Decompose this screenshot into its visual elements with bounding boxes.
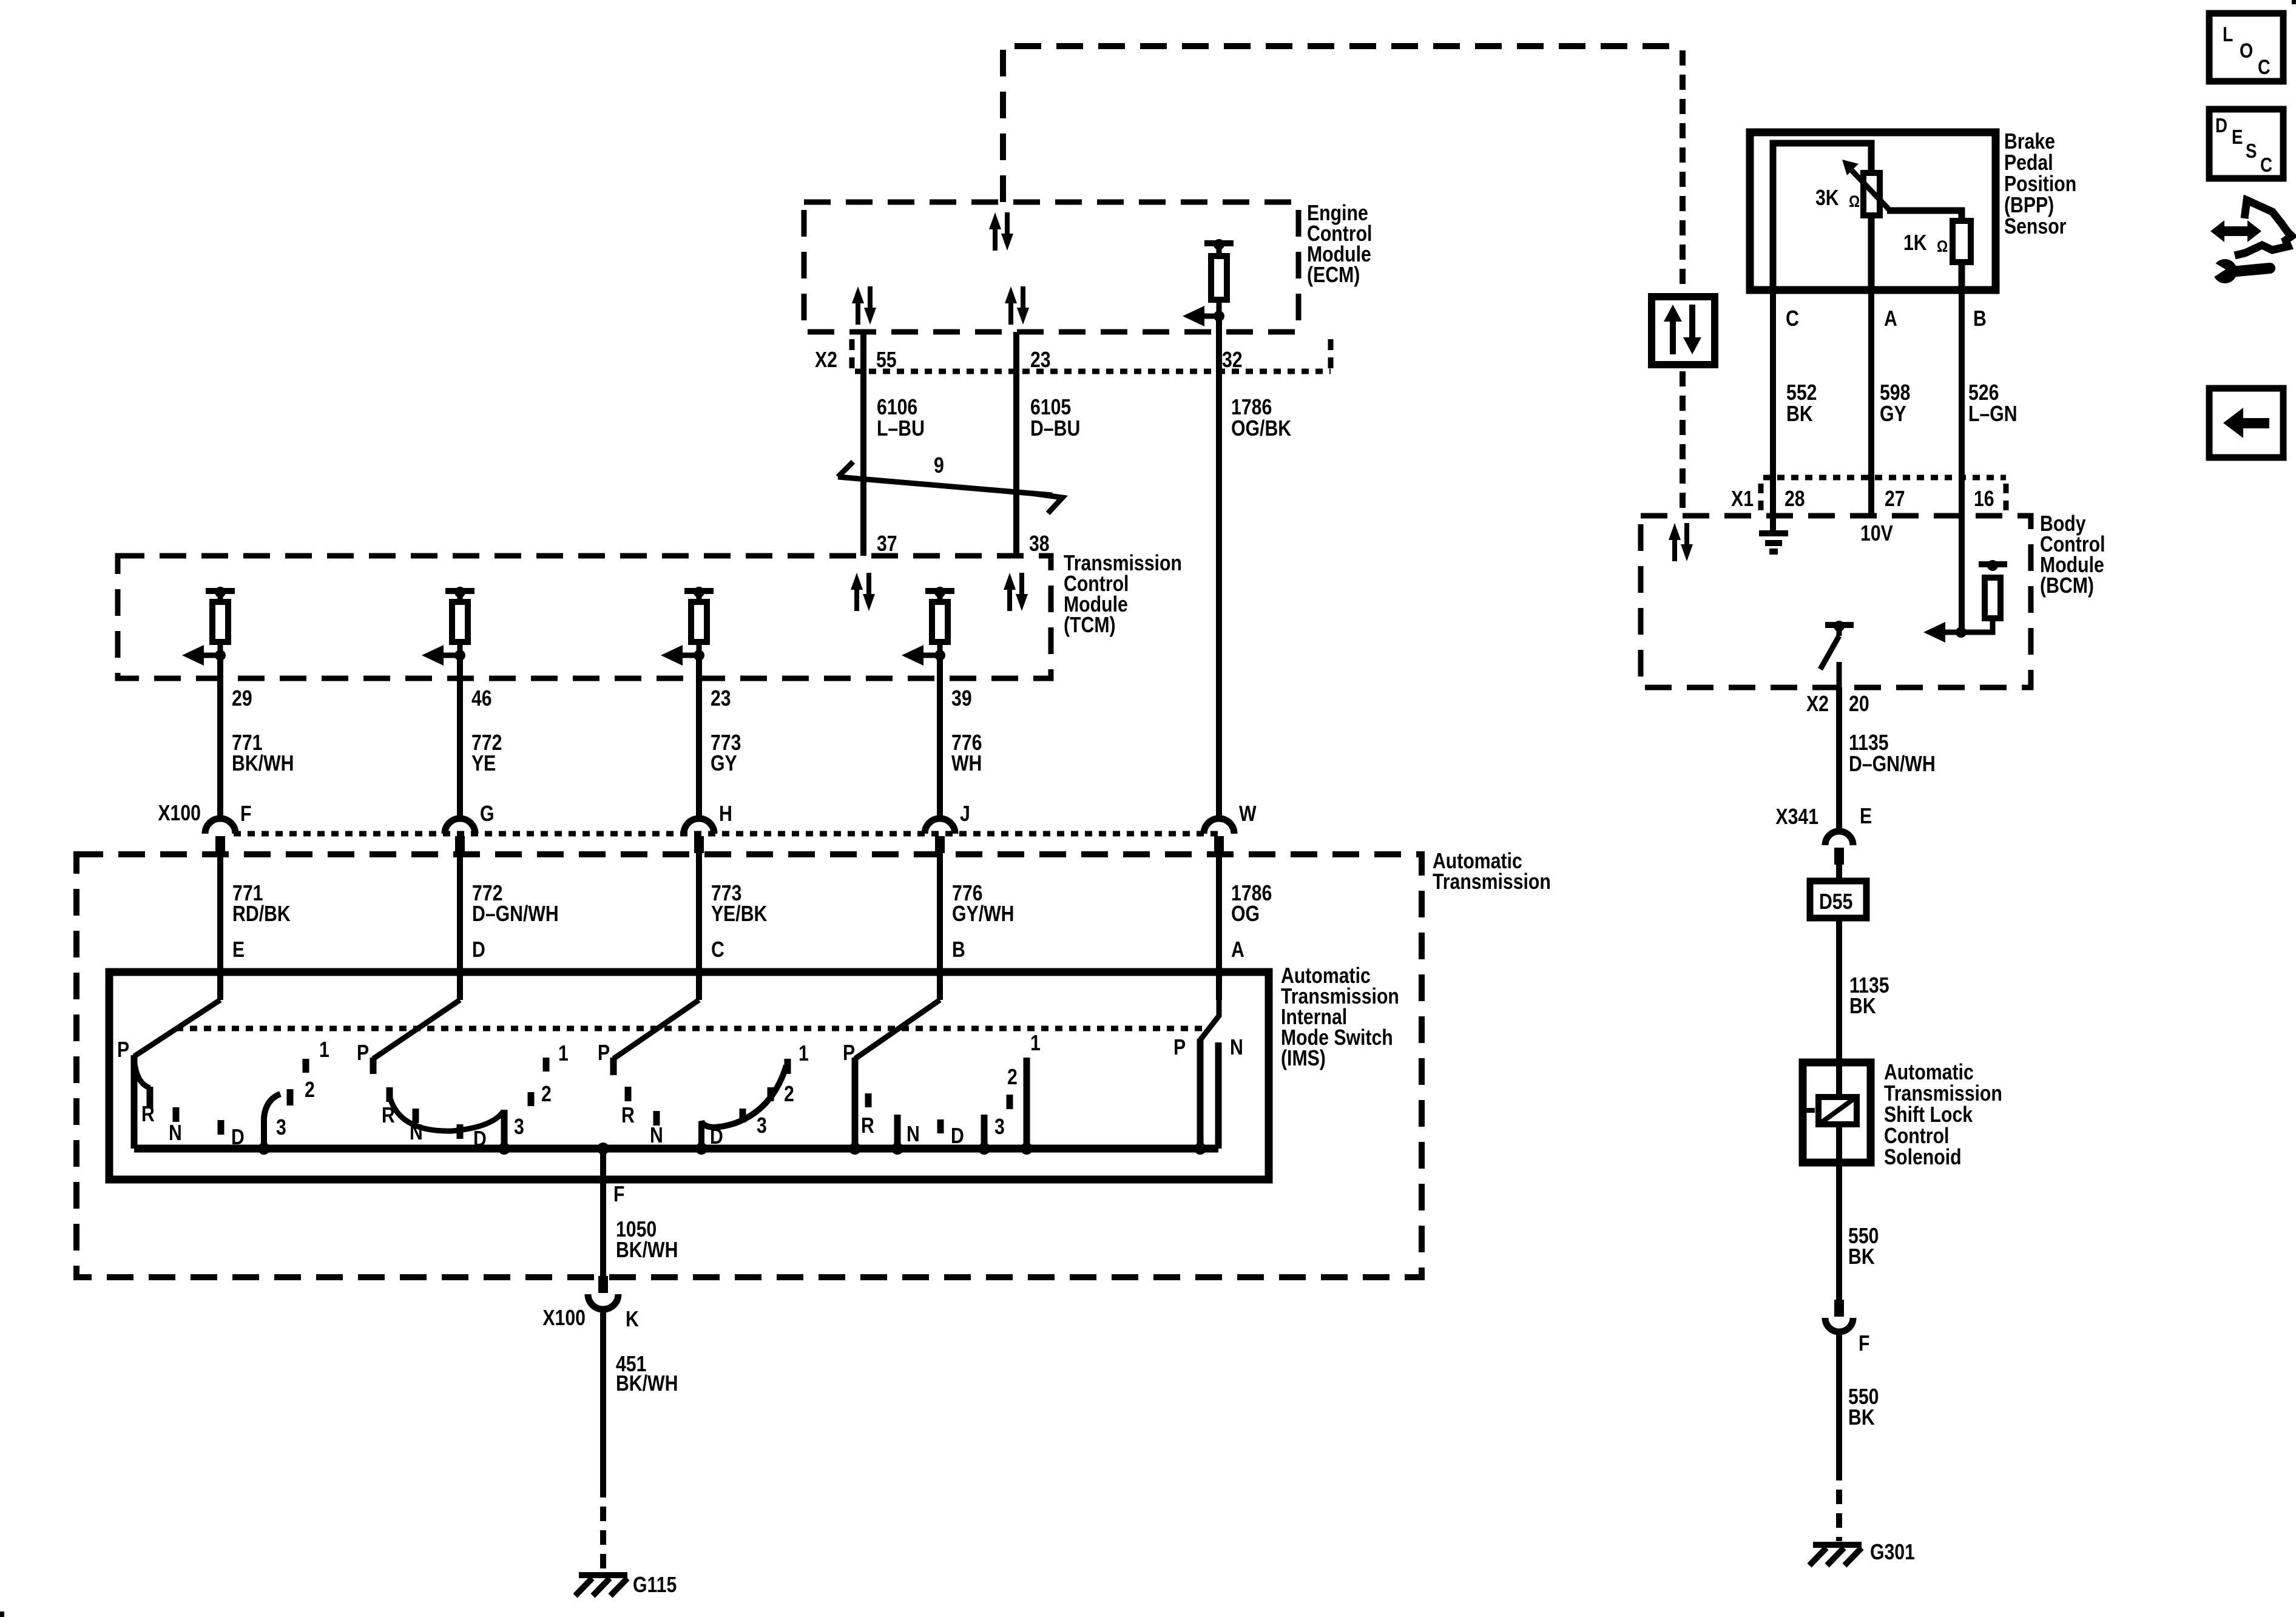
wire 526 L-GN (BPP B to BCM 16) <box>1959 290 1965 632</box>
svg-text:Transmission: Transmission <box>1433 870 1551 894</box>
wire 772 YE (TCM 46 to X100) <box>457 655 463 820</box>
splice D55 box <box>1810 881 1866 918</box>
svg-text:9: 9 <box>934 454 944 478</box>
TCM output driver pin 29 <box>182 587 235 666</box>
IMS switch E bus junction <box>258 1143 270 1155</box>
svg-text:39: 39 <box>951 687 972 711</box>
svg-text:1K: 1K <box>1903 231 1927 255</box>
wire B inside BPP <box>1959 262 1965 290</box>
svg-text:H: H <box>719 802 732 826</box>
IMS switch A wiper diagonal <box>1200 972 1219 1040</box>
IMS switch C contact R tick <box>625 1087 632 1101</box>
svg-text:X100: X100 <box>158 802 201 826</box>
svg-text:D: D <box>710 1125 723 1149</box>
IMS switch B contact R tick <box>865 1093 872 1107</box>
IMS bus junction at F <box>597 1143 609 1155</box>
svg-text:10V: 10V <box>1860 522 1893 546</box>
IMS switch D contact R tick <box>387 1087 393 1102</box>
wire 771 RD/BK (X100 into IMS pin E) <box>217 849 223 1000</box>
svg-text:GY: GY <box>1880 402 1906 427</box>
svg-text:Sensor: Sensor <box>2004 215 2067 239</box>
wire 771 BK/WH (TCM 29 to X100) <box>217 655 223 820</box>
svg-text:3: 3 <box>994 1115 1005 1139</box>
wire 552 BK (BPP C to BCM 28) <box>1770 290 1776 532</box>
svg-text:F: F <box>1859 1332 1869 1356</box>
connector X100 terminal J <box>925 819 955 853</box>
IMS switch B contact D tick <box>937 1119 944 1133</box>
TCM output driver pin 39 <box>902 587 954 666</box>
connector X100 terminal K <box>588 1276 618 1309</box>
svg-text:N: N <box>410 1121 423 1145</box>
IMS switch D contact D tick <box>457 1124 464 1139</box>
BCM pull-up resistor for pin 16 <box>1923 560 2007 643</box>
wire 6105 D-BU (ECM 23 to TCM 38) <box>1013 332 1019 556</box>
IMS switch D contact 1 tick <box>543 1058 550 1072</box>
svg-text:R: R <box>382 1104 395 1128</box>
legend back arrow box <box>2209 388 2283 457</box>
connector X100 terminal G <box>445 819 475 853</box>
svg-text:(ECM): (ECM) <box>1307 263 1360 288</box>
connector X2 dashed line <box>855 369 1331 374</box>
svg-text:N: N <box>169 1121 182 1146</box>
svg-text:RD/BK: RD/BK <box>232 902 291 927</box>
svg-text:BK/WH: BK/WH <box>616 1372 678 1396</box>
svg-text:3K: 3K <box>1815 186 1839 211</box>
svg-text:E: E <box>1860 805 1872 829</box>
svg-text:32: 32 <box>1222 348 1243 373</box>
IMS switch C bridge arc D to 1 <box>701 1065 786 1149</box>
IMS switch D contact 3 drop to bus <box>501 1110 508 1149</box>
svg-text:G115: G115 <box>633 1573 677 1598</box>
svg-text:1: 1 <box>319 1038 329 1062</box>
svg-text:D: D <box>231 1126 245 1150</box>
svg-text:2: 2 <box>784 1082 794 1107</box>
IMS switch A pivot P to bus <box>1197 1039 1204 1149</box>
wire 772 D–GN/WH (X100 into IMS pin D) <box>457 849 463 1000</box>
svg-text:F: F <box>613 1183 624 1207</box>
svg-text:Solenoid: Solenoid <box>1884 1146 1962 1170</box>
svg-text:Ω: Ω <box>1849 192 1860 211</box>
svg-text:1: 1 <box>799 1042 809 1066</box>
wire 1786 OG (X100 into IMS pin A) <box>1216 849 1222 1000</box>
wire 550 BK to ground <box>1836 1331 1842 1466</box>
svg-text:P: P <box>1173 1036 1186 1060</box>
svg-text:O: O <box>2240 39 2253 62</box>
IMS switch B contact 2 tick <box>1007 1095 1013 1109</box>
potentiometer 3K resistor <box>1863 173 1880 215</box>
svg-text:P: P <box>843 1041 855 1065</box>
connector X341 terminal E <box>1825 831 1853 865</box>
connector X100 dashed line <box>234 831 1219 837</box>
legend LOC box <box>2209 13 2283 81</box>
ground symbol inside BCM (pin 28) <box>1759 533 1788 552</box>
svg-text:GY: GY <box>711 752 737 776</box>
wire dashed to G115 <box>600 1483 606 1569</box>
IMS switch E pivot P to bus <box>131 1055 138 1149</box>
wire 598 GY (BPP A to BCM 27) <box>1868 290 1874 517</box>
IMS switch E contact 1 tick <box>303 1059 309 1073</box>
wire dashed to G301 <box>1836 1466 1842 1541</box>
svg-text:R: R <box>141 1102 155 1127</box>
IMS switch C contact N tick <box>653 1111 660 1126</box>
svg-text:55: 55 <box>876 348 897 373</box>
svg-text:D–GN/WH: D–GN/WH <box>472 902 559 927</box>
svg-text:K: K <box>626 1308 639 1332</box>
connector X2 tick right <box>1328 339 1334 373</box>
svg-text:N: N <box>907 1122 920 1147</box>
svg-text:2: 2 <box>1007 1065 1018 1090</box>
IMS wiper linkage dashed line <box>176 1026 1204 1031</box>
wire 550 BK (solenoid to X341 F) <box>1836 1124 1842 1301</box>
svg-text:P: P <box>117 1038 129 1062</box>
svg-text:L–BU: L–BU <box>877 417 925 441</box>
wire dashed vertical segment down to inline connector <box>1680 50 1686 290</box>
wire into D55 <box>1836 865 1842 881</box>
ECM bidirectional arrows at top entry <box>989 212 1013 251</box>
wire 773 GY (TCM 23 to X100) <box>696 655 702 820</box>
svg-text:J: J <box>960 802 970 826</box>
potentiometer wiper arrow <box>1842 160 1889 210</box>
wire 1135 D-GN/WH (BCM X2-20) <box>1836 687 1842 831</box>
wire F out of IMS <box>600 1149 606 1277</box>
svg-text:G301: G301 <box>1870 1541 1915 1565</box>
IMS switch D pivot stub <box>370 1058 377 1074</box>
Automatic Transmission dashed box <box>76 854 1422 1277</box>
IMS switch D bridge arc R to 3 <box>390 1098 504 1131</box>
IMS switch D contact N tick <box>413 1109 419 1123</box>
ground G115 <box>575 1575 627 1596</box>
svg-text:D: D <box>951 1124 964 1149</box>
svg-text:P: P <box>598 1041 610 1065</box>
ECM dashed box <box>804 202 1298 332</box>
svg-text:N: N <box>1230 1036 1243 1060</box>
svg-text:C: C <box>2258 56 2271 79</box>
svg-text:D–BU: D–BU <box>1030 417 1080 441</box>
svg-text:C: C <box>1786 307 1799 331</box>
svg-text:C: C <box>2260 154 2272 177</box>
corner mark bottom left <box>0 1612 4 1617</box>
wire 1135 BK (D55 to solenoid) <box>1836 918 1842 1097</box>
svg-text:38: 38 <box>1029 532 1050 556</box>
svg-text:B: B <box>952 938 965 962</box>
connector X1 dashed line <box>1763 475 2006 481</box>
IMS switch E contact 2 tick <box>287 1089 294 1106</box>
connector X2 tick left <box>849 339 855 373</box>
svg-text:23: 23 <box>711 687 731 711</box>
IMS switch E wiper diagonal <box>134 1000 220 1056</box>
IMS switch C contact 3 tick <box>740 1109 746 1122</box>
IMS switch B wiper diagonal <box>855 1000 940 1059</box>
IMS switch B pivot P to bus <box>852 1058 859 1149</box>
legend DESC box <box>2209 109 2283 178</box>
inline connector box with up/down arrows on dashed wire <box>1652 297 1715 365</box>
IMS switch E contact R tick <box>147 1087 154 1108</box>
svg-text:37: 37 <box>877 532 897 556</box>
connector X100 terminal H <box>684 819 714 853</box>
svg-text:E: E <box>2232 126 2243 149</box>
svg-text:BK: BK <box>1848 1245 1875 1269</box>
BPP internal loop wire C to potentiometer top <box>1773 143 1871 290</box>
svg-text:GY/WH: GY/WH <box>952 902 1014 927</box>
svg-text:2: 2 <box>541 1082 552 1107</box>
connector X341 terminal F <box>1825 1300 1853 1332</box>
svg-text:D: D <box>472 938 485 962</box>
svg-text:27: 27 <box>1885 487 1905 511</box>
TCM output driver pin 23 <box>661 587 714 666</box>
IMS switch E contact N tick <box>173 1107 180 1122</box>
IMS switch E contact D tick <box>218 1120 225 1135</box>
wire crossing symbol 9 <box>838 462 1062 513</box>
IMS common bus wire <box>134 1145 1218 1153</box>
IMS switch A bus junction <box>1194 1143 1206 1155</box>
svg-text:B: B <box>1973 307 1987 331</box>
svg-text:OG/BK: OG/BK <box>1231 417 1291 441</box>
wire dashed interconnect ECM to BCM (top run) <box>1003 46 1683 202</box>
IMS switch D bus junction <box>498 1143 510 1155</box>
svg-text:D55: D55 <box>1819 890 1852 914</box>
svg-text:R: R <box>621 1104 635 1128</box>
ECM output driver for pin 32 <box>1183 239 1234 326</box>
wire 6106 L-BU (ECM 55 to TCM 37) <box>860 332 866 556</box>
svg-text:W: W <box>1239 802 1257 826</box>
svg-text:X341: X341 <box>1775 805 1818 829</box>
wire 776 WH (TCM 39 to X100) <box>937 655 943 820</box>
wire dashed vertical segment below inline connector into BCM <box>1680 371 1686 513</box>
svg-text:X100: X100 <box>542 1306 586 1331</box>
svg-text:X1: X1 <box>1731 487 1754 511</box>
IMS switch B contact 1 to bus <box>1024 1058 1030 1149</box>
svg-text:Ω: Ω <box>1937 237 1948 255</box>
svg-text:WH: WH <box>951 752 982 776</box>
IMS switch B contact 3 to bus <box>981 1115 988 1149</box>
svg-text:L–GN: L–GN <box>1968 402 2017 427</box>
svg-text:YE/BK: YE/BK <box>711 902 767 927</box>
svg-text:3: 3 <box>276 1116 286 1140</box>
TCM bidirectional arrows pin 37 <box>851 573 875 611</box>
wire A inside BPP <box>1868 215 1875 290</box>
IMS switch B contact N to bus <box>894 1115 901 1149</box>
svg-text:29: 29 <box>232 687 252 711</box>
1K resistor <box>1953 221 1971 262</box>
ECM bidirectional arrows pin 23 <box>1005 286 1029 325</box>
TCM dashed box <box>118 556 1051 678</box>
IMS switch E wiper curve to R <box>135 1063 150 1088</box>
svg-text:16: 16 <box>1974 487 1994 511</box>
IMS switch C contact 1 tick <box>785 1059 791 1074</box>
connector X100 terminal W <box>1204 819 1234 853</box>
shift lock control solenoid box <box>1803 1062 1871 1163</box>
svg-text:20: 20 <box>1849 692 1869 717</box>
IMS switch C bus junction <box>695 1143 707 1155</box>
svg-text:BK: BK <box>1786 402 1813 427</box>
BCM dashed box <box>1641 516 2031 687</box>
svg-text:BK/WH: BK/WH <box>616 1238 678 1263</box>
svg-text:S: S <box>2246 140 2257 163</box>
svg-text:E: E <box>232 938 245 962</box>
svg-text:F: F <box>240 802 251 826</box>
svg-text:D: D <box>473 1127 487 1152</box>
wire 1786 OG/BK (ECM 32 to X100 W) <box>1216 316 1222 820</box>
svg-text:D: D <box>2215 115 2227 137</box>
TCM output driver pin 46 <box>422 587 474 666</box>
svg-text:BK: BK <box>1848 1406 1875 1430</box>
svg-text:23: 23 <box>1030 348 1051 373</box>
svg-text:D–GN/WH: D–GN/WH <box>1849 752 1936 777</box>
svg-text:1: 1 <box>558 1042 569 1066</box>
svg-text:2: 2 <box>305 1078 315 1102</box>
IMS switch E contact finger to 2 <box>264 1094 280 1149</box>
svg-text:(IMS): (IMS) <box>1281 1047 1326 1071</box>
svg-text:X2: X2 <box>1806 692 1829 717</box>
svg-text:P: P <box>357 1041 369 1065</box>
IMS switch D contact 2 tick <box>528 1092 535 1106</box>
svg-text:OG: OG <box>1231 902 1260 927</box>
svg-text:A: A <box>1231 938 1244 962</box>
svg-text:A: A <box>1884 307 1897 331</box>
svg-text:3: 3 <box>757 1114 767 1138</box>
svg-text:28: 28 <box>1784 487 1805 511</box>
svg-text:BK/WH: BK/WH <box>232 752 294 776</box>
connector X1 tick left <box>1758 484 1764 511</box>
svg-text:1: 1 <box>1030 1031 1041 1056</box>
svg-text:3: 3 <box>514 1115 524 1139</box>
BCM switch (shift lock output) <box>1820 621 1854 687</box>
IMS switch C pivot stub <box>610 1058 617 1075</box>
IMS switch D wiper diagonal <box>373 1000 460 1059</box>
svg-text:R: R <box>861 1114 874 1138</box>
legend interchange icon (double arrow with outline and wrench) <box>2209 200 2292 283</box>
wire 451 BK/WH <box>600 1309 606 1483</box>
TCM bidirectional arrows pin 38 <box>1004 573 1028 611</box>
svg-text:N: N <box>650 1124 663 1148</box>
ground G301 <box>1809 1545 1862 1565</box>
BCM bidirectional arrows <box>1669 523 1693 561</box>
IMS switch B bus junctions <box>849 1143 1033 1155</box>
svg-text:(TCM): (TCM) <box>1064 613 1116 638</box>
svg-text:46: 46 <box>471 687 492 711</box>
BPP wiper link to 1K resistor <box>1887 211 1962 221</box>
svg-text:C: C <box>711 938 724 962</box>
connector X1 tick right <box>2004 484 2009 511</box>
svg-text:G: G <box>480 802 495 826</box>
solenoid coil symbol <box>1805 1097 1857 1124</box>
IMS switch A contact N to bus <box>1215 1042 1222 1149</box>
svg-text:(BCM): (BCM) <box>2040 574 2094 598</box>
ECM bidirectional arrows pin 55 <box>852 286 876 325</box>
connector X100 terminal F <box>205 819 235 853</box>
IMS solid box <box>109 972 1269 1180</box>
IMS switch C contact 2 tick <box>768 1087 774 1101</box>
corner mark top right <box>2292 0 2296 4</box>
BPP sensor box <box>1750 132 1996 290</box>
IMS switch C wiper diagonal <box>613 1000 699 1059</box>
svg-text:X2: X2 <box>815 348 837 373</box>
svg-text:BK: BK <box>1849 994 1876 1019</box>
wire 773 YE/BK (X100 into IMS pin C) <box>696 849 702 1000</box>
wire 776 GY/WH (X100 into IMS pin B) <box>937 849 943 1000</box>
svg-text:L: L <box>2223 23 2233 46</box>
svg-text:YE: YE <box>471 752 496 776</box>
